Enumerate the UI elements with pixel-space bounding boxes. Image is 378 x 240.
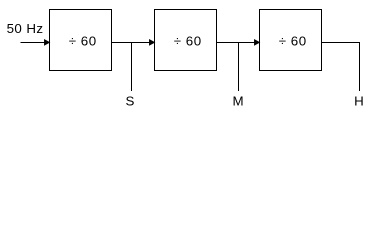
wire input 50 Hz bbox=[21, 42, 46, 44]
arrowhead into divider U1 bbox=[45, 40, 50, 45]
wire U2 to U3 bbox=[217, 42, 256, 44]
divider block U3 (divide-by-60) bbox=[260, 10, 322, 71]
svg-text:H: H bbox=[354, 94, 364, 109]
wire U3 output elbow to node H bbox=[322, 43, 360, 92]
svg-text:S: S bbox=[126, 94, 135, 109]
svg-text:50 Hz: 50 Hz bbox=[7, 21, 44, 36]
svg-text:M: M bbox=[232, 94, 243, 109]
svg-text:÷ 60: ÷ 60 bbox=[69, 34, 97, 49]
svg-text:÷ 60: ÷ 60 bbox=[279, 34, 307, 49]
svg-text:÷ 60: ÷ 60 bbox=[174, 34, 202, 49]
wire tap to node M bbox=[238, 43, 240, 92]
arrowhead into divider U2 bbox=[150, 40, 155, 45]
wire tap to node S bbox=[131, 43, 133, 92]
arrowhead into divider U3 bbox=[255, 40, 260, 45]
divider block U1 (divide-by-60) bbox=[50, 10, 112, 71]
divider block U2 (divide-by-60) bbox=[155, 10, 217, 71]
wire U1 to U2 bbox=[112, 42, 151, 44]
